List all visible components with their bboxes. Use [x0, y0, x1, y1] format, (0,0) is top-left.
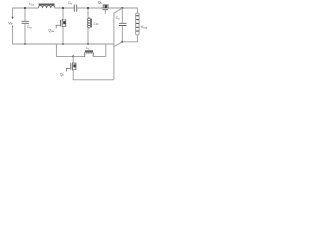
wire aux bottom run [73, 78, 114, 79]
svg-text:L1a: L1a [29, 2, 34, 6]
wire top rail left [13, 7, 38, 9]
transistor Q3 (aux switch Qc) [60, 56, 76, 79]
capacitor Cb (series) [68, 1, 77, 11]
node Qa bottom [62, 43, 64, 45]
wire aux to Lc [73, 55, 84, 57]
node aux branch junction [72, 55, 74, 57]
wire aux left riser [56, 44, 72, 56]
node L1b top [87, 7, 89, 9]
svg-text:Co: Co [116, 16, 121, 20]
wire aux vertical [113, 13, 115, 78]
svg-text:Vin: Vin [8, 20, 13, 25]
wire diagonal from Co bottom to aux vertical [114, 42, 122, 46]
transistor Q2 (top switch Qb) [98, 1, 109, 14]
svg-text:Vout: Vout [141, 24, 148, 29]
svg-text:Qc: Qc [60, 73, 65, 77]
svg-text:Cb: Cb [68, 1, 73, 5]
resistor Rload [136, 8, 139, 42]
svg-text:Qb: Qb [98, 1, 103, 5]
svg-text:Lc: Lc [86, 46, 90, 50]
node Qa top [62, 7, 64, 9]
node Cin top [24, 7, 26, 9]
inductor Lc [85, 46, 94, 56]
wire top rail right of Cb [77, 7, 102, 9]
capacitor Cin [22, 8, 32, 44]
wire ground rail [13, 43, 114, 45]
node Cin bottom [24, 43, 26, 45]
wire output ground rail [122, 41, 137, 43]
node output+ junction [121, 7, 123, 9]
node L1b bottom [87, 43, 89, 45]
transistor Q1 (shunt switch Qa) [48, 8, 65, 44]
svg-text:L1b: L1b [94, 22, 99, 26]
svg-text:Qaa: Qaa [48, 29, 54, 33]
svg-text:Cin: Cin [27, 25, 32, 29]
wire Lc to ground rail riser [93, 44, 106, 56]
voltage source Vin [8, 8, 14, 44]
wire top rail mid [55, 7, 74, 9]
wire top rail to output [109, 7, 137, 9]
inductor L1b [87, 8, 99, 44]
inductor L1a [29, 2, 55, 8]
wire diagonal from output node to aux vertical [114, 8, 122, 13]
capacitor Co [116, 8, 127, 42]
node Co bottom junction [121, 41, 123, 43]
